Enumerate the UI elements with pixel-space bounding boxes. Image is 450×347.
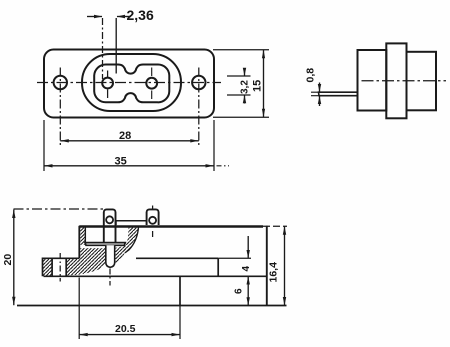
dimension 35 extension lines (43, 120, 45, 171)
dimension 20.5 line (79, 334, 180, 336)
pin right centerline stubs (151, 68, 153, 100)
terminal pin right centerline stubs (152, 206, 154, 238)
terminal pin left hole (106, 216, 113, 223)
hatched patch right of pin (115, 246, 127, 265)
dimension 0,8 arrows (319, 83, 321, 92)
dimension 4 top extension (218, 257, 251, 259)
hatched left wall (79, 226, 85, 245)
lower body right edge (179, 276, 181, 305)
dimension 2,36 arrows (87, 16, 102, 18)
body mid line (44, 275, 267, 277)
svg-text:4: 4 (241, 266, 252, 272)
dimension 35 line (44, 165, 214, 167)
svg-text:35: 35 (115, 155, 127, 167)
body right block (407, 52, 437, 111)
dimension 35 line tail dashes (217, 165, 230, 167)
recess top edge (136, 257, 218, 259)
terminal pin left seat plate (85, 243, 125, 246)
dimension 15 extension lines (213, 49, 269, 51)
hatched wedge right of pin (123, 226, 138, 253)
side view centerline (362, 80, 447, 82)
dimension 3,2 extension lines (227, 75, 251, 77)
dimension 15 line (263, 50, 265, 118)
svg-text:15: 15 (252, 80, 264, 92)
svg-text:20.5: 20.5 (115, 323, 136, 335)
mounting hole left (54, 76, 67, 89)
terminal pin side (319, 92, 358, 96)
body left block (358, 50, 387, 111)
svg-text:0,8: 0,8 (305, 68, 317, 83)
svg-text:2,36: 2,36 (127, 7, 154, 23)
mounting flange left hatched end (43, 258, 52, 276)
dimension 20.5 extension lines (78, 278, 80, 340)
body bottom line (17, 305, 287, 307)
dimension 2,36 extension solid line (115, 18, 117, 74)
pin left centerline stubs (107, 71, 109, 99)
face plate outline (44, 50, 214, 118)
horizontal centerline (37, 82, 221, 84)
section centerline (14, 208, 104, 210)
dimension 28 line (60, 140, 199, 142)
hatched body mass (66, 248, 106, 275)
terminal pin left lower part (106, 245, 115, 267)
dimension 3,2 arrows (244, 68, 246, 76)
mounting flange outline (43, 258, 80, 276)
mounting flange hole centerline (59, 253, 61, 282)
terminal pin right hole (149, 217, 156, 224)
svg-text:16,4: 16,4 (268, 262, 280, 283)
dimension 16,4 line (284, 226, 286, 305)
dimension 2,36 extension dashed line (102, 18, 104, 79)
svg-text:28: 28 (119, 130, 131, 142)
body top surface (79, 225, 263, 228)
body right edge (266, 226, 268, 306)
terminal pin left (with hole) (104, 209, 116, 242)
outer recess stadium (82, 54, 181, 111)
step vertical (217, 258, 219, 276)
mounting hole left centerline (59, 68, 61, 147)
terminal pin right (with hole) (147, 209, 159, 225)
flange (386, 43, 406, 118)
dimension 6 arrow (247, 292, 249, 305)
dimension 4 arrows (247, 236, 249, 258)
dimension 20 line (13, 210, 15, 306)
dimension 0,8 extension lines (311, 91, 320, 93)
figure-8 inner cutout (94, 64, 169, 102)
mounting hole right centerline (198, 68, 200, 147)
dimension 16,4 extension dash (263, 225, 287, 227)
pin left (102, 78, 113, 89)
pin right (146, 78, 157, 89)
mounting hole right (192, 76, 205, 89)
svg-text:20: 20 (2, 254, 14, 266)
terminal pin left centerline (109, 269, 111, 286)
svg-text:3,2: 3,2 (240, 80, 251, 94)
svg-text:6: 6 (234, 288, 245, 294)
raised deck between pins (116, 221, 147, 225)
